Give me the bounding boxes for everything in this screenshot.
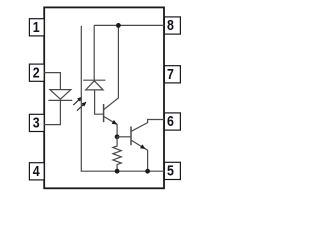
LED D1 (emitter diode) [48, 90, 72, 101]
pin box 6 [164, 113, 180, 130]
wire Q1 emitter node to Q2 base [117, 136, 130, 138]
pin box 4 [29, 163, 44, 180]
svg-text:7: 7 [167, 66, 174, 82]
svg-text:5: 5 [167, 163, 174, 179]
pin box 2 [29, 64, 44, 81]
transistor Q2 base bar [130, 126, 132, 145]
junction dot top rail / Q1 collector [116, 23, 121, 28]
transistor Q1 collector to top rail [104, 25, 118, 109]
transistor Q2 collector to pin 6 [132, 120, 165, 132]
wire pin2 to LED anode [44, 73, 60, 90]
pin box 5 [164, 162, 180, 179]
transistor Q1 base bar [103, 104, 105, 122]
shield line to pin5 rail (vertical line between emitter and detector) [81, 26, 164, 172]
svg-text:6: 6 [167, 113, 174, 129]
svg-text:4: 4 [33, 163, 40, 179]
pin box 8 [164, 17, 180, 34]
transistor Q2 emitter with arrow to bottom rail [132, 140, 148, 171]
photodiode D2 [83, 80, 105, 90]
junction dot Q1 emitter / Q2 base / resistor [115, 134, 120, 139]
wire LED cathode to pin3 [44, 100, 60, 124]
svg-text:3: 3 [33, 115, 40, 131]
pin box 7 [164, 66, 180, 83]
resistor R1 between Q2 base node and bottom rail [113, 137, 121, 171]
junction dot resistor / bottom rail [115, 169, 120, 174]
junction dot Q2 emitter / bottom rail [145, 169, 150, 174]
svg-text:8: 8 [167, 17, 174, 33]
svg-text:1: 1 [33, 19, 40, 35]
wire top rail down to photodiode cathode [93, 25, 95, 80]
svg-text:2: 2 [33, 64, 40, 80]
light arrow 2 [77, 102, 87, 111]
top rail to pin 8 [94, 24, 164, 26]
pin box 1 [29, 19, 44, 36]
wire photodiode anode to Q1 base [95, 90, 104, 114]
IC package body outline [44, 7, 164, 188]
light arrow 1 [73, 97, 82, 106]
pin box 3 [29, 114, 44, 131]
transistor Q1 emitter with arrow [104, 117, 117, 137]
